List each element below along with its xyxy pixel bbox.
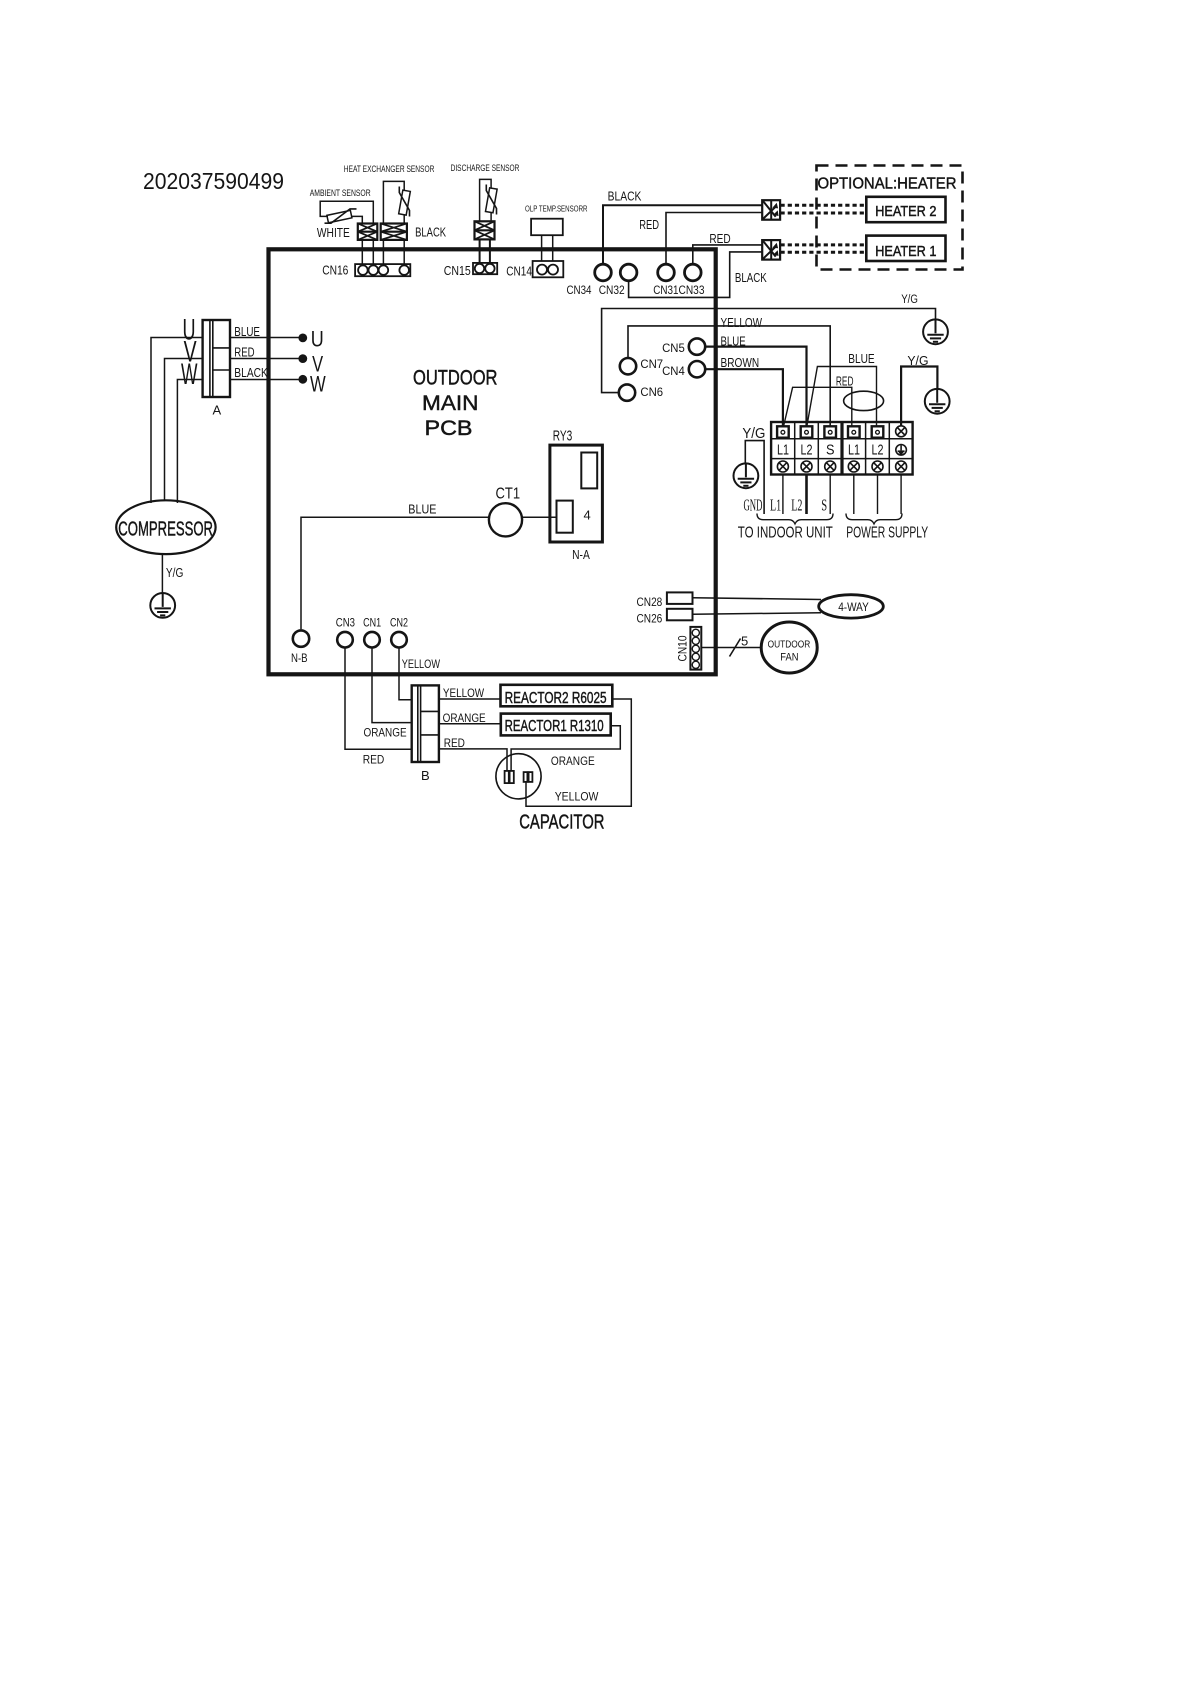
RED label 2 xyxy=(709,231,730,246)
ground symbol 3 xyxy=(734,463,759,488)
RED wire B to capacitor xyxy=(439,749,507,771)
svg-text:N-B: N-B xyxy=(291,651,308,665)
svg-text:S: S xyxy=(826,441,835,458)
svg-text:Y/G: Y/G xyxy=(166,566,184,580)
BLUE wire N-B to CT1 to RY3 xyxy=(301,517,557,629)
OLP temp sensor box xyxy=(531,219,563,236)
CN7 label xyxy=(640,357,663,371)
connector CN10 xyxy=(690,627,701,670)
svg-text:FAN: FAN xyxy=(780,652,798,664)
svg-text:YELLOW: YELLOW xyxy=(443,686,485,700)
Y/G label 3 xyxy=(742,426,765,442)
heat exchanger sensor thermistor xyxy=(399,187,411,217)
heat exchanger sensor connector plug xyxy=(381,224,407,240)
CN15 label xyxy=(444,263,471,278)
discharge sensor connector plug xyxy=(475,221,495,239)
connector CN4 xyxy=(689,361,705,377)
current transformer CT1 xyxy=(489,503,522,536)
ambient sensor thermistor xyxy=(325,209,357,223)
svg-text:RY3: RY3 xyxy=(553,429,573,445)
svg-text:BLACK: BLACK xyxy=(608,189,642,204)
svg-text:YELLOW: YELLOW xyxy=(555,789,599,803)
svg-text:L2: L2 xyxy=(801,441,813,458)
svg-text:Y/G: Y/G xyxy=(901,294,918,306)
S lead label xyxy=(821,496,827,515)
Y/G wire CN6 to ground 1 xyxy=(602,309,936,393)
BLACK label xyxy=(608,189,642,204)
connector CN2 xyxy=(391,632,407,648)
connector CN26 xyxy=(667,609,693,621)
RED jumper wire indoor L1 to power L1 xyxy=(784,387,852,427)
heater 2 box xyxy=(866,197,945,222)
terminal ground symbol cell xyxy=(896,445,907,456)
svg-text:ORANGE: ORANGE xyxy=(551,754,595,768)
REACTOR2 R6025 label xyxy=(505,690,607,707)
BLUE lead label A xyxy=(234,325,260,339)
svg-text:CN31: CN31 xyxy=(653,283,678,297)
ground symbol 1 xyxy=(923,319,948,344)
CN5 label xyxy=(662,341,685,355)
svg-text:L2: L2 xyxy=(872,441,884,458)
svg-text:DISCHARGE SENSOR: DISCHARGE SENSOR xyxy=(451,163,520,174)
connector CN31 xyxy=(658,264,675,281)
svg-text:CN10: CN10 xyxy=(675,635,689,661)
CAPACITOR label xyxy=(519,811,604,833)
capacitor right terminal pair xyxy=(524,772,533,782)
svg-text:L2: L2 xyxy=(791,496,802,515)
svg-text:WHITE: WHITE xyxy=(317,225,350,240)
svg-text:CN28: CN28 xyxy=(637,595,663,609)
heat exchanger sensor wire loop xyxy=(383,181,404,223)
indoor unit lead S xyxy=(829,475,831,515)
YELLOW wire reactor2 to capacitor xyxy=(526,699,631,806)
BLUE label xyxy=(721,335,746,349)
svg-text:L1: L1 xyxy=(777,441,789,458)
BLACK wire CN32 to heater1 plug xyxy=(629,252,763,298)
connector CN33 xyxy=(685,264,702,281)
optional heater dashed enclosure xyxy=(817,166,963,270)
BROWN label xyxy=(721,356,760,370)
terminal clamp L2 indoor xyxy=(801,426,813,437)
connector CN15 xyxy=(473,263,497,274)
outdoor fan motor xyxy=(761,622,817,673)
svg-text:AMBIENT SENSOR: AMBIENT SENSOR xyxy=(310,188,371,199)
ORANGE label capacitor wire xyxy=(551,754,595,768)
N-B label xyxy=(291,651,308,665)
svg-text:BLACK: BLACK xyxy=(415,225,446,240)
svg-text:CN4: CN4 xyxy=(662,364,685,378)
terminal block B xyxy=(412,685,439,762)
5 conductor slash xyxy=(730,639,741,657)
connector CN6 xyxy=(619,384,635,400)
svg-text:ORANGE: ORANGE xyxy=(364,726,407,740)
connector CN14 xyxy=(533,261,564,277)
OLP temp sensor label xyxy=(525,203,588,213)
terminal labels row xyxy=(777,441,884,458)
terminal clamp L1 indoor xyxy=(777,426,789,437)
YELLOW label capacitor wire xyxy=(555,789,599,803)
ferrite ring ellipse xyxy=(844,391,884,410)
svg-text:U: U xyxy=(311,327,324,352)
YELLOW label CN2 xyxy=(402,657,441,671)
YELLOW wire B to reactor2 xyxy=(439,698,501,700)
power supply lead L1 xyxy=(853,475,855,515)
svg-text:POWER SUPPLY: POWER SUPPLY xyxy=(846,525,928,542)
svg-text:CN15: CN15 xyxy=(444,263,471,278)
terminal block outline xyxy=(771,422,913,475)
ambient sensor connector plug xyxy=(358,224,378,240)
svg-text:L1: L1 xyxy=(770,496,781,515)
connector CN34 xyxy=(595,264,612,281)
CN3 label xyxy=(336,615,355,629)
4-WAY label xyxy=(838,600,869,614)
W node letter xyxy=(310,372,326,397)
connector CN7 xyxy=(620,358,636,374)
connector CN16 xyxy=(355,264,410,276)
connector N-B xyxy=(293,630,309,646)
connector CN28 xyxy=(667,592,693,604)
svg-text:YELLOW: YELLOW xyxy=(721,316,763,330)
svg-text:YELLOW: YELLOW xyxy=(402,657,441,671)
terminal screws bottom row xyxy=(777,461,906,472)
ORANGE wire CN1 to B xyxy=(372,649,412,723)
terminal ground screw top xyxy=(896,426,907,437)
ORANGE label reactor1 xyxy=(443,711,486,725)
svg-text:OPTIONAL:HEATER: OPTIONAL:HEATER xyxy=(818,175,957,192)
svg-text:CN32: CN32 xyxy=(599,283,625,297)
RY3 label xyxy=(553,429,573,445)
CN32 label xyxy=(599,283,625,297)
svg-text:BLUE: BLUE xyxy=(408,502,436,516)
power supply lead ground xyxy=(900,475,902,515)
COMPRESSOR label xyxy=(118,519,213,541)
V phase letter left xyxy=(184,336,197,369)
svg-text:Y/G: Y/G xyxy=(907,354,928,368)
node U dot xyxy=(298,334,307,343)
ground symbol 4 xyxy=(150,593,175,618)
BLACK label 2 xyxy=(735,270,767,285)
RED label capacitor wire xyxy=(444,736,465,750)
PCB title text xyxy=(413,366,498,440)
U node letter xyxy=(311,327,324,352)
svg-text:OLP TEMP.SENSORR: OLP TEMP.SENSORR xyxy=(525,203,588,213)
HEATER 2 label xyxy=(875,204,936,220)
svg-text:CN26: CN26 xyxy=(637,612,663,626)
CN4 label xyxy=(662,364,685,378)
heater 2 dashed leads xyxy=(781,205,867,213)
connector CN5 xyxy=(689,338,705,354)
RED wire CN33 to heater1 plug xyxy=(693,245,762,264)
RED wire CN3 to B xyxy=(345,649,412,750)
RED label CN3 xyxy=(363,753,385,767)
OUTDOOR FAN label xyxy=(768,639,811,663)
YELLOW label xyxy=(721,316,763,330)
heater 1 box xyxy=(866,236,945,261)
svg-text:CN3: CN3 xyxy=(336,615,355,629)
RED lead label A xyxy=(234,345,254,359)
4-way valve coil xyxy=(819,595,884,618)
svg-text:CN6: CN6 xyxy=(640,385,663,399)
svg-text:COMPRESSOR: COMPRESSOR xyxy=(118,519,213,541)
heat exchanger sensor pins to CN16 xyxy=(383,240,404,264)
CN26 label xyxy=(637,612,663,626)
outdoor main PCB board outline xyxy=(269,249,716,674)
svg-text:REACTOR2 R6025: REACTOR2 R6025 xyxy=(505,690,607,707)
W phase letter left xyxy=(181,358,198,391)
svg-text:CN14: CN14 xyxy=(506,263,532,278)
RED wire CN31 to heater2 plug xyxy=(666,213,762,264)
Y/G label compressor xyxy=(166,566,184,580)
wire U compressor xyxy=(151,338,299,504)
BLUE wire CN5 to terminal L2 xyxy=(706,347,807,427)
svg-text:202037590499: 202037590499 xyxy=(143,168,284,194)
terminal clamp L1 power xyxy=(848,426,860,437)
part number label 202037590499 xyxy=(143,168,284,194)
OLP sensor pins to CN14 xyxy=(542,235,553,261)
V node letter xyxy=(312,352,323,377)
wire CN28 to 4-way xyxy=(693,598,822,600)
discharge sensor thermistor xyxy=(485,185,497,215)
svg-text:A: A xyxy=(213,403,222,418)
CN10 label xyxy=(675,635,689,661)
svg-text:B: B xyxy=(421,768,430,783)
svg-text:BLUE: BLUE xyxy=(848,352,875,366)
svg-text:REACTOR1 R1310: REACTOR1 R1310 xyxy=(505,718,604,735)
ambient sensor label xyxy=(310,188,371,199)
reactor1 box xyxy=(501,714,611,736)
Y/G label 1 xyxy=(901,294,918,306)
BLACK wire CN34 to heater2 plug xyxy=(603,205,762,263)
capacitor left terminal pair xyxy=(505,771,514,783)
compressor ground wire xyxy=(161,554,163,593)
GND wire to ground 3 xyxy=(745,441,764,514)
L1 lead label xyxy=(770,496,781,515)
discharge sensor wire loop xyxy=(480,179,492,221)
svg-text:4-WAY: 4-WAY xyxy=(838,600,869,614)
indoor unit lead L1 xyxy=(782,475,784,515)
svg-text:BROWN: BROWN xyxy=(721,356,760,370)
svg-text:CAPACITOR: CAPACITOR xyxy=(519,811,604,833)
svg-text:BLACK: BLACK xyxy=(234,366,268,380)
node W dot xyxy=(298,375,307,384)
svg-text:CN2: CN2 xyxy=(390,615,408,629)
5 label xyxy=(741,634,748,649)
svg-text:RED: RED xyxy=(234,345,254,359)
svg-text:OUTDOOR: OUTDOOR xyxy=(413,366,498,390)
ambient sensor pins to CN16 xyxy=(362,240,373,264)
connector CN3 xyxy=(337,632,353,648)
CT1 label xyxy=(496,486,521,503)
terminal clamp L2 power xyxy=(872,426,884,437)
svg-text:MAIN: MAIN xyxy=(422,391,479,415)
svg-text:PCB: PCB xyxy=(425,416,473,440)
discharge sensor label xyxy=(451,163,520,174)
CN6 label xyxy=(640,385,663,399)
svg-text:HEATER 1: HEATER 1 xyxy=(875,244,936,260)
svg-text:S: S xyxy=(821,496,827,515)
B block label xyxy=(421,768,430,783)
svg-text:BLUE: BLUE xyxy=(721,335,746,349)
reactor2 box xyxy=(501,685,613,707)
svg-text:RED: RED xyxy=(836,374,854,388)
CN31 label xyxy=(653,283,678,297)
OPTIONAL:HEATER label xyxy=(818,175,957,192)
YELLOW wire CN2 to B xyxy=(399,649,412,700)
terminal clamp S indoor xyxy=(824,426,836,437)
ORANGE wire reactor1 to capacitor xyxy=(511,726,620,771)
heat exchanger sensor label xyxy=(344,164,435,175)
heater 1 dashed leads xyxy=(781,245,867,252)
ORANGE wire B to reactor1 xyxy=(439,723,501,725)
svg-text:CN1: CN1 xyxy=(363,615,381,629)
capacitor body xyxy=(496,754,541,799)
svg-text:CN34: CN34 xyxy=(567,283,592,297)
RED jumper label xyxy=(836,374,854,388)
indoor unit lead L2 xyxy=(805,475,808,515)
CN16 label xyxy=(322,262,348,277)
svg-text:HEAT EXCHANGER SENSOR: HEAT EXCHANGER SENSOR xyxy=(344,164,435,175)
N-A node label xyxy=(572,548,590,562)
BLUE label CT1 wire xyxy=(408,502,436,516)
GND label xyxy=(744,496,763,515)
BLACK lead label A xyxy=(234,366,268,380)
POWER SUPPLY label xyxy=(846,525,928,542)
relay RY3 box xyxy=(550,445,603,542)
svg-text:RED: RED xyxy=(709,231,730,246)
svg-text:BLACK: BLACK xyxy=(735,270,767,285)
compressor motor xyxy=(116,500,215,554)
REACTOR1 R1310 label xyxy=(505,718,604,735)
WHITE wire label xyxy=(317,225,350,240)
svg-text:ORANGE: ORANGE xyxy=(443,711,486,725)
terminal block A xyxy=(203,320,230,397)
svg-text:CN7: CN7 xyxy=(640,357,663,371)
A block label xyxy=(213,403,222,418)
CN34 label xyxy=(567,283,592,297)
Y/G wire terminal ground to ground 2 xyxy=(901,367,937,427)
connector CN1 xyxy=(364,632,380,648)
brace to indoor unit xyxy=(757,514,833,524)
BROWN wire CN4 to terminal L1 xyxy=(706,369,783,427)
CN14 label xyxy=(506,263,532,278)
svg-text:Y/G: Y/G xyxy=(742,426,765,442)
svg-text:CT1: CT1 xyxy=(496,486,521,503)
heater 1 plug connector xyxy=(762,240,780,260)
brace power supply xyxy=(846,514,902,524)
RY3 pin 4 label xyxy=(584,507,591,522)
node V dot xyxy=(298,354,307,363)
svg-text:CN16: CN16 xyxy=(322,262,348,277)
U phase letter left xyxy=(183,314,196,347)
CN33 label xyxy=(679,283,705,297)
L2 lead label xyxy=(791,496,802,515)
power supply lead L2 xyxy=(877,475,879,515)
BLACK wire label xyxy=(415,225,446,240)
ambient sensor wire loop xyxy=(320,201,373,223)
wire V compressor xyxy=(165,359,300,502)
svg-text:RED: RED xyxy=(639,217,659,232)
YELLOW wire CN7 to terminal S xyxy=(628,326,830,427)
TO INDOOR UNIT label xyxy=(738,525,833,542)
svg-text:HEATER 2: HEATER 2 xyxy=(875,204,936,220)
svg-text:L1: L1 xyxy=(848,441,860,458)
ORANGE label CN1 xyxy=(364,726,407,740)
svg-text:RED: RED xyxy=(444,736,465,750)
wire CN26 to 4-way xyxy=(693,613,822,614)
discharge sensor pins to CN15 xyxy=(480,239,490,263)
svg-text:W: W xyxy=(181,358,198,391)
CN1 label xyxy=(363,615,381,629)
svg-text:RED: RED xyxy=(363,753,385,767)
heater 2 plug connector xyxy=(762,200,780,220)
wire W compressor xyxy=(177,380,299,504)
CN28 label xyxy=(637,595,663,609)
svg-text:5: 5 xyxy=(741,634,748,649)
svg-text:4: 4 xyxy=(584,507,591,522)
Y/G label 2 xyxy=(907,354,928,368)
svg-text:CN33: CN33 xyxy=(679,283,705,297)
YELLOW label reactor2 xyxy=(443,686,485,700)
svg-text:GND: GND xyxy=(744,496,763,515)
BLUE jumper wire indoor L2 to power L2 xyxy=(807,367,877,428)
CN2 label xyxy=(390,615,408,629)
ground symbol 2 xyxy=(925,389,950,414)
svg-text:W: W xyxy=(310,372,326,397)
svg-text:N-A: N-A xyxy=(572,548,590,562)
wire CN10 to fan xyxy=(701,647,762,649)
svg-text:OUTDOOR: OUTDOOR xyxy=(768,639,811,650)
RED label xyxy=(639,217,659,232)
svg-text:TO INDOOR UNIT: TO INDOOR UNIT xyxy=(738,525,833,542)
svg-text:CN5: CN5 xyxy=(662,341,685,355)
BLUE jumper label xyxy=(848,352,875,366)
connector CN32 xyxy=(620,264,637,281)
HEATER 1 label xyxy=(875,244,936,260)
